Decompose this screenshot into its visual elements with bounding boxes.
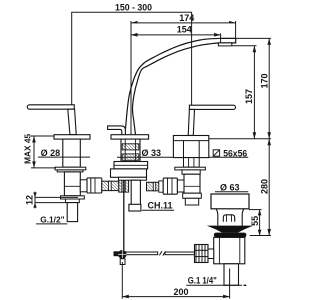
label CH.11 underline [142, 209, 174, 211]
left center fitting [119, 179, 129, 192]
svg-text:MAX 45: MAX 45 [23, 134, 33, 164]
left nut flange upper [55, 167, 86, 170]
dim 200 line [122, 296, 229, 298]
label D63 underline [215, 191, 248, 193]
dim 154 arrows [131, 33, 221, 37]
label square 56x56 symbol [213, 150, 219, 156]
left valve body [64, 172, 80, 196]
svg-text:55: 55 [250, 216, 260, 226]
dim 174 arrows [131, 21, 236, 23]
svg-text:G.1 1/4": G.1 1/4" [188, 275, 217, 285]
deck right ext line [209, 138, 271, 140]
label G.1 1/4 underline [186, 284, 242, 286]
right hose [147, 182, 164, 191]
drain neck [216, 209, 244, 226]
right compression nut [163, 178, 177, 194]
center cartridge body [121, 139, 140, 161]
drain body [214, 237, 245, 263]
left handle flange [54, 135, 90, 139]
stub below ball [120, 259, 125, 265]
dim 280 arrows [267, 139, 271, 236]
drain seal lens [207, 226, 253, 233]
svg-text:157: 157 [244, 89, 254, 104]
right under-valve flange [183, 193, 202, 198]
drain barrel detail [223, 215, 234, 222]
label D33 underline / deck line [117, 156, 248, 158]
label G.1/2 underline [36, 223, 67, 225]
dim 200 ext right [229, 269, 231, 299]
right nut flange lower [182, 170, 200, 174]
drain clamp nut [195, 245, 209, 263]
dim 157 line [253, 46, 255, 139]
svg-text:G.1/2": G.1/2" [40, 215, 64, 225]
right cylinder below deck [184, 158, 200, 168]
rod break marks [159, 251, 162, 255]
pop-up pull rod [123, 180, 125, 250]
svg-text:154: 154 [177, 25, 192, 35]
center mounting nut [114, 162, 148, 169]
svg-text:170: 170 [259, 73, 269, 88]
center plate lip [119, 177, 147, 180]
dim 170 + 280 shared line [268, 38, 270, 235]
cartridge hatched ring upper [122, 144, 139, 150]
ball joint [118, 250, 127, 259]
right lever bar [189, 105, 235, 109]
right escutcheon box [173, 136, 208, 158]
left hose [102, 181, 119, 190]
left compression nut [87, 178, 102, 193]
cartridge hatched ring lower [122, 154, 139, 160]
dim MAX45 arrows [32, 136, 36, 168]
left under-valve flange [61, 196, 85, 199]
svg-text:150 - 300: 150 - 300 [115, 2, 152, 12]
center pipe [131, 180, 140, 209]
svg-text:CH.11: CH.11 [148, 201, 173, 211]
dim 170 ext from spout top [236, 37, 271, 39]
dim 157 ext from aerator bottom [232, 45, 257, 47]
svg-text:56x56: 56x56 [223, 148, 247, 158]
dim 12 ext lines [35, 196, 78, 198]
svg-text:280: 280 [260, 179, 270, 194]
pop-up knob [108, 126, 126, 136]
left lever stem [68, 109, 76, 134]
right valve body [184, 174, 200, 193]
dim 55 arrows [258, 210, 262, 236]
horizontal rod segment 2 [165, 252, 194, 255]
dim 157 arrows [253, 46, 257, 139]
dim 55 line [259, 210, 261, 236]
left pipe collar [66, 199, 80, 203]
dim 55 ext top [249, 209, 262, 211]
drain tailpipe [224, 264, 239, 286]
drain O-ring band [214, 233, 247, 238]
right lever stem [188, 109, 194, 135]
dim 12 arrows [33, 192, 36, 207]
dim 154 line [131, 33, 221, 45]
dim 200 ext left [121, 262, 123, 299]
drain clamp stub [208, 249, 214, 259]
dim MAX45 ext top [31, 135, 54, 137]
left nut flange lower [57, 170, 83, 172]
spout aerator box [218, 43, 231, 46]
rod left tab [114, 251, 119, 256]
horizontal rod segment 1 [118, 252, 158, 255]
dim 174 line [131, 21, 236, 135]
dim 12 line [34, 192, 36, 209]
right valve stub [185, 198, 198, 205]
drain cap [211, 194, 249, 209]
center pipe end block [129, 204, 141, 211]
dim MAX45 ext bottom [31, 167, 56, 169]
dim 170 arrows [267, 38, 271, 138]
dim 150-300 line [72, 12, 192, 135]
svg-text:Ø 33: Ø 33 [142, 148, 162, 158]
left handle cylinder [63, 139, 81, 167]
center flange [111, 135, 149, 139]
svg-text:174: 174 [179, 13, 194, 23]
spout outer curve [125, 38, 236, 134]
svg-text:12: 12 [24, 195, 34, 205]
spout inner curve [133, 43, 219, 135]
dim MAX45 line [33, 136, 35, 168]
left lever bar [27, 105, 74, 109]
left valve port [80, 180, 87, 192]
cartridge inner verticals [124, 139, 126, 161]
svg-text:200: 200 [173, 287, 188, 297]
left tailpiece pipe [67, 203, 77, 222]
right nut flange upper [175, 167, 206, 170]
svg-text:Ø 28: Ø 28 [41, 148, 61, 158]
center plate [111, 169, 147, 177]
label D28 underline [38, 156, 90, 158]
dim 200 arrows [122, 295, 229, 299]
dim 55 ext bottom [250, 235, 271, 237]
right valve port [177, 180, 184, 192]
